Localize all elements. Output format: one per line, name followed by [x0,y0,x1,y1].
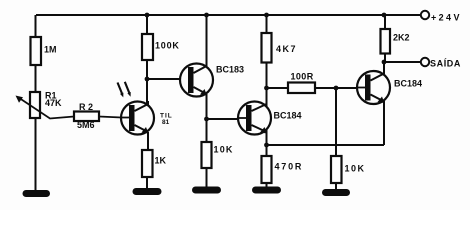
svg-text:2K2: 2K2 [393,33,410,43]
svg-text:1M: 1M [44,45,57,55]
svg-text:SAÍDA: SAÍDA [430,59,461,69]
svg-text:1K: 1K [155,156,167,166]
svg-text:10K: 10K [214,145,234,155]
svg-text:100R: 100R [291,72,314,82]
svg-text:470R: 470R [275,162,304,172]
svg-text:BC184: BC184 [274,111,302,121]
svg-text:5M6: 5M6 [77,120,95,130]
svg-text:+24V: +24V [431,13,462,23]
svg-text:81: 81 [162,119,170,126]
svg-text:4K7: 4K7 [276,44,297,54]
svg-text:BC184: BC184 [394,79,422,89]
svg-text:BC183: BC183 [216,65,244,75]
svg-text:10K: 10K [345,164,366,174]
svg-text:100K: 100K [155,41,180,51]
svg-text:R 2: R 2 [79,102,93,112]
svg-text:47K: 47K [45,98,62,108]
